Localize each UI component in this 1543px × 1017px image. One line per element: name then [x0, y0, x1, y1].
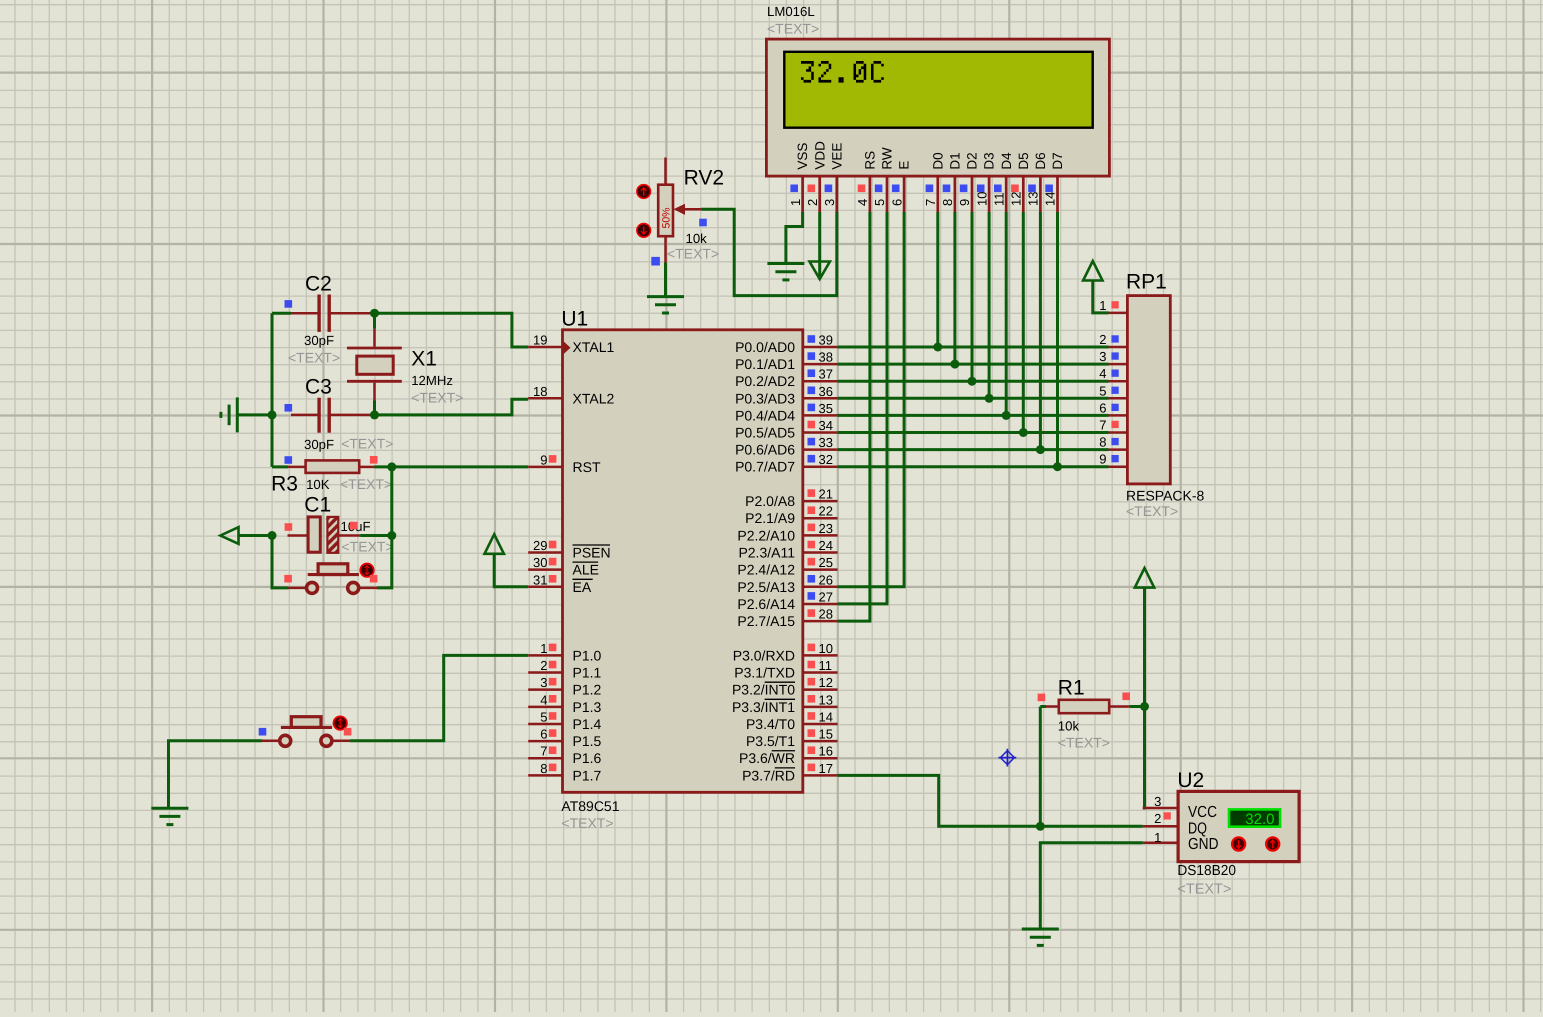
U1 pin number 12 — [819, 675, 833, 690]
C3 TEXT placeholder — [341, 436, 393, 452]
U1 pin 4 P1.3 stub — [528, 706, 562, 709]
svg-text:D0: D0 — [930, 152, 945, 169]
U1 pin name P1.1 — [573, 665, 602, 681]
U1 pin number 26 — [819, 572, 833, 587]
U1 pin 37 probe square — [808, 369, 816, 377]
svg-text:RV2: RV2 — [684, 167, 724, 190]
LCD module LM016L body — [766, 39, 1109, 176]
U1 pin name ALE — [573, 562, 599, 578]
svg-text:VEE: VEE — [829, 143, 844, 170]
wire C1 right to junction — [360, 534, 392, 537]
U2 pin number 1 — [1154, 830, 1161, 845]
R3 left probe square — [285, 456, 293, 464]
C2 TEXT placeholder — [288, 350, 340, 366]
RP1 pin number 4 — [1099, 366, 1106, 381]
R3 label — [271, 473, 298, 496]
U1 pin 12 P3.2/INT0 stub — [803, 688, 838, 691]
wire C2-C3-R3 left vertical — [271, 313, 274, 467]
U1 pin name P0.7/AD7 — [735, 459, 795, 475]
LCD pin 7 probe square — [926, 185, 934, 193]
LCD pin 13 probe square — [1028, 185, 1036, 193]
svg-text:<TEXT>: <TEXT> — [411, 389, 463, 405]
svg-text:P3.1/TXD: P3.1/TXD — [734, 665, 795, 681]
LCD pin number 9 — [957, 199, 972, 206]
svg-text:22: 22 — [819, 504, 833, 519]
svg-text:27: 27 — [819, 589, 833, 604]
wire P0.6 bus to RP1 pin 8 — [838, 448, 1109, 451]
svg-text:11: 11 — [991, 193, 1006, 207]
U1 pin name RST — [573, 459, 601, 475]
R1 label — [1058, 676, 1085, 699]
U1 pin number 11 — [819, 658, 833, 673]
wire D3 down to P0.3 bus — [988, 212, 991, 398]
potentiometer RV2 — [658, 158, 701, 263]
U1 pin number 27 — [819, 589, 833, 604]
RP1 pin number 6 — [1099, 400, 1106, 415]
U1 pin 7 probe square — [549, 746, 557, 754]
junction D4 — [1002, 411, 1011, 420]
svg-text:P0.2/AD2: P0.2/AD2 — [735, 373, 795, 389]
U1 pin 6 probe square — [549, 729, 557, 737]
LCD pin number 10 — [974, 192, 989, 206]
svg-text:P1.2: P1.2 — [573, 682, 602, 698]
U1 pin 17 P3.7/RD stub — [803, 774, 838, 777]
LCD pin number 2 — [805, 199, 820, 206]
svg-text:P2.3/A11: P2.3/A11 — [738, 545, 795, 561]
reset push button — [288, 564, 377, 594]
U2 pin name VCC — [1188, 804, 1217, 821]
svg-text:10K: 10K — [306, 477, 330, 492]
U1 pin name P1.7 — [573, 767, 602, 783]
RV2 value 10k — [686, 231, 708, 246]
U1 pin name P2.4/A12 — [737, 562, 795, 578]
svg-text:R3: R3 — [271, 473, 298, 496]
U1 pin name P0.0/AD0 — [735, 339, 795, 355]
C3 value 30pF — [304, 437, 334, 452]
svg-text:14: 14 — [1043, 192, 1058, 206]
U1 pin 17 probe square — [808, 764, 816, 772]
svg-text:12MHz: 12MHz — [411, 373, 453, 388]
RP1 pin 1 probe square — [1111, 301, 1118, 308]
wire C2 left — [272, 312, 291, 315]
svg-text:8: 8 — [540, 761, 547, 776]
LCD pin 4 probe square — [858, 185, 866, 193]
U1 pin 16 probe square — [808, 746, 816, 754]
LCD pin name D6 — [1033, 152, 1048, 169]
LCD pin 6 probe square — [892, 185, 900, 193]
U1 pin name P0.6/AD6 — [735, 442, 795, 458]
U1 pin name P1.6 — [573, 750, 602, 766]
wire VEE to RV2 wiper — [701, 209, 837, 295]
C2 value 30pF — [304, 333, 334, 348]
LCD pin number 14 — [1043, 192, 1058, 206]
LCD pin 9 stub — [971, 176, 974, 212]
svg-text:2: 2 — [1099, 332, 1106, 347]
svg-text:RP1: RP1 — [1126, 271, 1167, 294]
wire X1 bottom — [373, 401, 376, 415]
resistor pack RP1 body — [1127, 296, 1170, 484]
U1 pin 13 probe square — [808, 695, 816, 703]
svg-text:5: 5 — [1099, 383, 1106, 398]
LCD pin name RS — [863, 151, 878, 170]
U1 pin 21 P2.0/A8 stub — [803, 500, 838, 503]
wire P0.3 bus to RP1 pin 5 — [838, 397, 1109, 400]
svg-text:VDD: VDD — [812, 141, 827, 170]
R3 right probe square — [370, 456, 378, 464]
U1 pin 15 probe square — [808, 729, 816, 737]
wire P0.0 bus to RP1 pin 2 — [838, 346, 1109, 349]
U1 pin 30 probe square — [549, 558, 557, 566]
junction C2/X1 — [370, 309, 379, 318]
X1 value 12MHz — [411, 373, 453, 388]
junction C3 left — [268, 410, 277, 419]
svg-text:RESPACK-8: RESPACK-8 — [1126, 488, 1205, 504]
C1 left probe square — [285, 523, 293, 531]
RP1 pin 2 probe square — [1111, 335, 1118, 342]
junction D7 — [1053, 462, 1062, 471]
U1 pin name P1.5 — [573, 733, 602, 749]
U1 pin number 18 — [533, 384, 547, 399]
U1 pin 28 probe square — [808, 609, 816, 617]
LCD pin number 4 — [855, 199, 870, 206]
U1 pin 19 XTAL1 stub — [528, 346, 562, 349]
svg-text:6: 6 — [1099, 400, 1106, 415]
wire P3.7/RD to DS18B20 DQ — [838, 775, 1143, 826]
junction C3/X1 — [370, 410, 379, 419]
LCD pin 8 probe square — [943, 185, 951, 193]
U1 pin 10 probe square — [808, 644, 816, 652]
svg-text:P3.0/RXD: P3.0/RXD — [733, 647, 795, 663]
capacitor C2 — [291, 295, 372, 332]
wire VSS to ground — [786, 212, 803, 264]
svg-text:18: 18 — [533, 384, 547, 399]
svg-text:C2: C2 — [305, 272, 332, 295]
wire C3 to XTAL2 — [375, 399, 529, 415]
svg-text:2: 2 — [540, 658, 547, 673]
junction D5 — [1019, 428, 1028, 437]
svg-text:<TEXT>: <TEXT> — [561, 815, 613, 831]
wire RV2 to ground — [664, 263, 667, 297]
svg-text:GND: GND — [1188, 836, 1219, 853]
wire R3 left — [272, 465, 288, 468]
svg-text:P0.6/AD6: P0.6/AD6 — [735, 442, 795, 458]
U1 pin name P2.3/A11 — [738, 545, 795, 561]
svg-text:RST: RST — [573, 459, 601, 475]
RP1 pin 7 stub — [1109, 431, 1128, 434]
U1 pin number 32 — [819, 452, 833, 467]
U1 pin name P1.3 — [573, 699, 602, 715]
svg-text:6: 6 — [889, 199, 904, 206]
U1 pin 32 probe square — [808, 455, 816, 463]
svg-text:<TEXT>: <TEXT> — [767, 21, 819, 37]
U1 pin name P1.2 — [573, 682, 602, 698]
U1 pin 31 probe square — [549, 575, 557, 583]
svg-text:D1: D1 — [948, 152, 963, 169]
LCD pin name D1 — [948, 152, 963, 169]
U1 pin 26 P2.5/A13 stub — [803, 586, 838, 589]
RV2 adjust buttons — [637, 185, 651, 238]
LCD pin 11 stub — [1005, 176, 1008, 212]
wire D5 down to P0.5 bus — [1022, 212, 1025, 433]
svg-text:<TEXT>: <TEXT> — [1177, 881, 1231, 897]
svg-text:P2.6/A14: P2.6/A14 — [737, 596, 795, 612]
U1 pin 28 P2.7/A15 stub — [803, 620, 838, 623]
U1 pin name P2.7/A15 — [737, 613, 795, 629]
U1 pin 14 probe square — [808, 712, 816, 720]
U1 pin name EA — [573, 579, 593, 595]
wire R1 down to DQ — [1039, 707, 1042, 827]
C2 label — [305, 272, 332, 295]
U1 pin 11 P3.1/TXD stub — [803, 671, 838, 674]
svg-text:D5: D5 — [1016, 152, 1031, 169]
U1 pin 35 probe square — [808, 404, 816, 412]
svg-text:21: 21 — [819, 487, 833, 502]
resistor R1 — [1046, 700, 1130, 713]
U1 pin 39 P0.0/AD0 stub — [803, 346, 838, 349]
svg-text:XTAL2: XTAL2 — [573, 390, 615, 406]
wire button2 to P1.0 — [350, 655, 528, 740]
ground for RV2 — [647, 297, 684, 313]
LCD pin 1 stub — [801, 176, 804, 212]
U1 pin number 5 — [540, 709, 547, 724]
junction D2 — [968, 377, 977, 386]
LCD pin 6 stub — [903, 176, 906, 212]
wire X1 top — [373, 313, 376, 329]
U1 pin 38 probe square — [808, 352, 816, 360]
wire power arrow to EA — [494, 554, 528, 587]
LCD pin name D2 — [965, 152, 980, 169]
ground left of C3 — [221, 397, 237, 432]
U1 pin number 28 — [819, 607, 833, 622]
button2 right probe square — [344, 728, 352, 736]
svg-text:<TEXT>: <TEXT> — [340, 476, 392, 492]
terminal arrow left — [220, 527, 238, 544]
U1 pin 4 probe square — [549, 695, 557, 703]
svg-text:C1: C1 — [304, 493, 331, 516]
U1 pin name P3.0/RXD — [733, 647, 795, 663]
wire VDD to power arrow — [818, 212, 821, 276]
wire D7 down to P0.7 bus — [1056, 212, 1059, 467]
wire RW to P2.6 — [838, 212, 887, 604]
svg-text:12: 12 — [819, 675, 833, 690]
RP1 pin 8 probe square — [1111, 438, 1118, 445]
junction C1 right — [387, 531, 396, 540]
LCD pin number 12 — [1009, 192, 1024, 206]
wire button2 to ground — [169, 741, 262, 808]
LCD pin 10 probe square — [977, 185, 985, 193]
svg-text:2: 2 — [1154, 811, 1161, 826]
svg-text:23: 23 — [819, 521, 833, 536]
U1 pin number 10 — [819, 641, 833, 656]
svg-text:P3.3/INT1: P3.3/INT1 — [732, 699, 795, 715]
RP1 pin number 8 — [1099, 435, 1106, 450]
RP1 pin 6 stub — [1109, 414, 1128, 417]
U1 pin 33 probe square — [808, 438, 816, 446]
U1 pin 38 P0.1/AD1 stub — [803, 363, 838, 366]
C1 right probe square — [350, 522, 358, 530]
svg-text:14: 14 — [819, 709, 833, 724]
R1 left probe square — [1038, 694, 1046, 702]
svg-text:32.0: 32.0 — [1245, 811, 1274, 828]
svg-text:DQ: DQ — [1188, 820, 1207, 837]
C1 label — [304, 493, 331, 516]
U1 pin name P3.3/INT1 — [732, 699, 795, 715]
microcontroller U1 AT89C51 body — [563, 330, 803, 793]
RV2 bottom probe square — [651, 257, 660, 266]
U1 pin 24 probe square — [808, 541, 816, 549]
U1 pin 24 P2.3/A11 stub — [803, 551, 838, 554]
U1 pin 37 P0.2/AD2 stub — [803, 380, 838, 383]
button2 left probe square — [259, 728, 267, 736]
U1 pin number 6 — [540, 727, 547, 742]
U1 pin 18 XTAL2 stub — [528, 397, 562, 400]
LCD text 32.0C — [801, 61, 884, 83]
svg-text:4: 4 — [1099, 366, 1106, 381]
U1 pin 9 probe square — [549, 455, 557, 463]
U1 pin number 17 — [819, 761, 833, 776]
X1 label — [411, 348, 437, 371]
LCD pin 3 probe square — [825, 185, 833, 193]
junction D3 — [985, 394, 994, 403]
RP1 pin 5 stub — [1109, 397, 1128, 400]
U1 pin 3 P1.2 stub — [528, 688, 562, 691]
svg-text:8: 8 — [1099, 435, 1106, 450]
U1 pin 35 P0.4/AD4 stub — [803, 414, 838, 417]
RP1 label — [1126, 271, 1167, 294]
U1 pin 15 P3.5/T1 stub — [803, 740, 838, 743]
svg-text:D4: D4 — [999, 152, 1014, 170]
svg-text:EA: EA — [573, 579, 592, 595]
U1 pin number 19 — [533, 333, 547, 348]
U1 pin 13 P3.3/INT1 stub — [803, 706, 838, 709]
U1 pin 12 probe square — [808, 678, 816, 686]
U1 label — [561, 308, 588, 331]
U1 pin 7 P1.6 stub — [528, 757, 562, 760]
svg-text:9: 9 — [1099, 452, 1106, 467]
U1 pin number 15 — [819, 727, 833, 742]
svg-text:1: 1 — [540, 641, 547, 656]
svg-text:36: 36 — [819, 384, 833, 399]
svg-text:10: 10 — [819, 641, 833, 656]
U1 pin name P1.4 — [573, 716, 602, 732]
svg-text:38: 38 — [819, 350, 833, 365]
power arrow VCC — [1135, 568, 1154, 588]
LCD pin number 13 — [1026, 192, 1041, 206]
LCD pin number 5 — [872, 199, 887, 206]
U1 pin number 9 — [540, 452, 547, 467]
U1 pin name P2.0/A8 — [745, 493, 795, 509]
svg-text:PSEN: PSEN — [573, 545, 611, 561]
U1 pin number 2 — [540, 658, 547, 673]
svg-text:28: 28 — [819, 607, 833, 622]
U2 pin number 3 — [1154, 794, 1161, 809]
U1 pin number 33 — [819, 435, 833, 450]
svg-text:3: 3 — [540, 675, 547, 690]
RP1 pin 9 probe square — [1111, 455, 1118, 462]
U1 pin name XTAL1 — [573, 339, 615, 355]
U1 pin number 39 — [819, 333, 833, 348]
U1 pin 32 P0.7/AD7 stub — [803, 465, 838, 468]
wire D2 down to P0.2 bus — [971, 212, 974, 381]
U2 adjust buttons — [1232, 837, 1279, 850]
U1 pin 11 probe square — [808, 661, 816, 669]
svg-text:P0.1/AD1: P0.1/AD1 — [735, 356, 795, 372]
R1 TEXT placeholder — [1058, 735, 1110, 751]
LCD pin 3 stub — [835, 176, 838, 212]
RP1 pin 5 probe square — [1111, 387, 1118, 394]
svg-text:1: 1 — [1154, 830, 1161, 845]
wire C1 left down to reset button — [272, 536, 289, 588]
U1 pin name P2.1/A9 — [745, 510, 795, 526]
LCD pin 14 probe square — [1045, 185, 1053, 193]
junction R3/RST — [387, 462, 396, 471]
wire E to P2.5 — [838, 212, 905, 587]
U1 pin number 34 — [819, 418, 833, 433]
U1 pin number 30 — [533, 555, 547, 570]
U1 pin 2 probe square — [549, 661, 557, 669]
C3 probe square — [285, 404, 293, 412]
U1 pin 34 probe square — [808, 421, 816, 429]
svg-text:9: 9 — [540, 452, 547, 467]
svg-text:30pF: 30pF — [304, 437, 334, 452]
svg-text:RW: RW — [880, 147, 895, 170]
U2 TEXT placeholder — [1177, 881, 1231, 897]
power arrow down at VDD — [810, 262, 830, 280]
U1 pin number 22 — [819, 504, 833, 519]
LCD pin name D4 — [999, 152, 1014, 170]
RP1 pin 2 stub — [1109, 346, 1128, 349]
LCD pin name VDD — [812, 141, 827, 170]
U1 pin 25 P2.4/A12 stub — [803, 568, 838, 571]
svg-text:U2: U2 — [1177, 769, 1204, 792]
svg-text:25: 25 — [819, 555, 833, 570]
U1 pin number 16 — [819, 744, 833, 759]
U1 pin 6 P1.5 stub — [528, 740, 562, 743]
U1 pin name P0.2/AD2 — [735, 373, 795, 389]
svg-text:R1: R1 — [1058, 676, 1085, 699]
U1 pin number 3 — [540, 675, 547, 690]
LCD pin 9 probe square — [960, 185, 968, 193]
svg-text:37: 37 — [819, 367, 833, 382]
svg-text:C3: C3 — [305, 376, 332, 399]
LCD pin 5 stub — [886, 176, 889, 212]
LCD pin 1 probe square — [790, 185, 798, 193]
LCD pin 12 probe square — [1011, 185, 1019, 193]
LCD pin number 3 — [822, 199, 837, 206]
U2 label — [1177, 769, 1204, 792]
junction D1 — [950, 360, 959, 369]
U2 pin name DQ — [1188, 820, 1207, 837]
RP1 pin 9 stub — [1109, 465, 1128, 468]
C1 value 10uF — [341, 519, 371, 534]
svg-text:E: E — [897, 161, 912, 170]
LCD pin number 8 — [940, 199, 955, 206]
svg-text:<TEXT>: <TEXT> — [288, 350, 340, 366]
svg-text:10: 10 — [974, 192, 989, 206]
U1 pin 9 RST stub — [528, 466, 562, 469]
U1 pin name P3.2/INT0 — [732, 682, 795, 698]
RP1 TEXT placeholder — [1126, 503, 1178, 519]
R3 TEXT placeholder — [340, 476, 392, 492]
LCD pin 5 probe square — [875, 185, 883, 193]
U1 pin number 1 — [540, 641, 547, 656]
U1 pin name P2.6/A14 — [737, 596, 795, 612]
svg-text:P1.1: P1.1 — [573, 665, 602, 681]
svg-text:4: 4 — [855, 199, 870, 206]
svg-text:30pF: 30pF — [304, 333, 334, 348]
svg-text:ALE: ALE — [573, 562, 599, 578]
U1 pin 14 P3.4/T0 stub — [803, 723, 838, 726]
